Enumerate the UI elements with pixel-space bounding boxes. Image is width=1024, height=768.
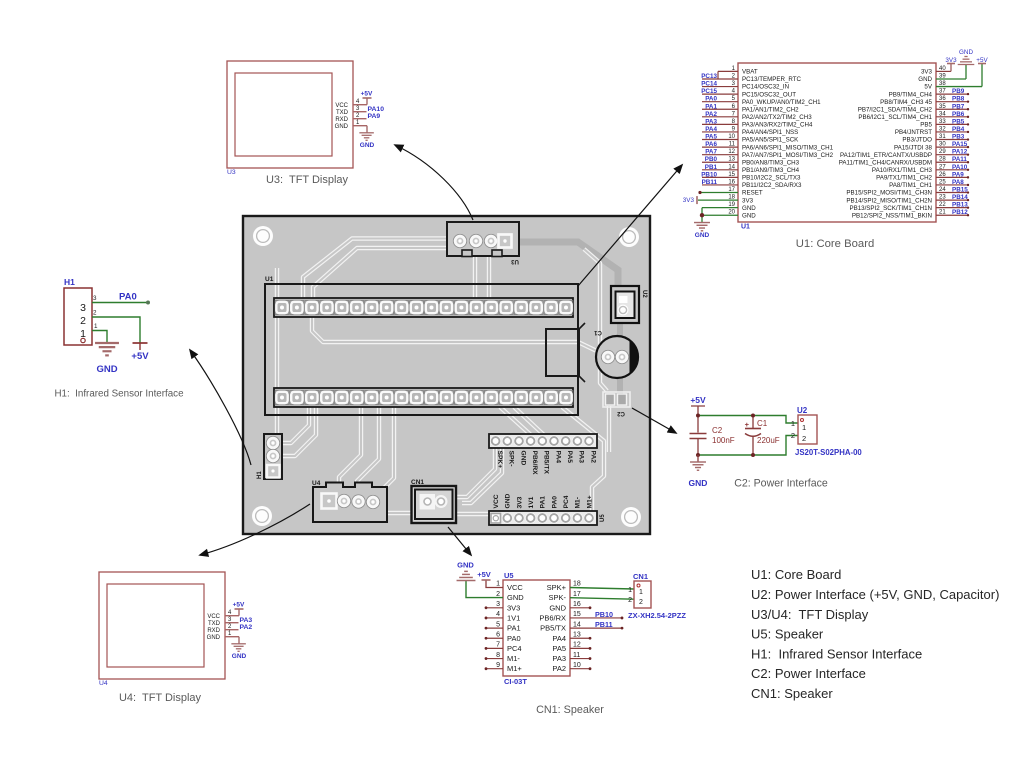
svg-text:PB9/TIM4_CH4: PB9/TIM4_CH4: [889, 91, 933, 98]
net label PA6: [702, 146, 738, 148]
C1 bracket on PCB: [546, 329, 579, 376]
svg-text:PA0: PA0: [705, 96, 717, 103]
svg-text:PA4: PA4: [552, 634, 566, 643]
ground symbol below U1 left: [694, 222, 710, 224]
svg-text:PB6/I2C1_SCL/TIM4_CH1: PB6/I2C1_SCL/TIM4_CH1: [858, 114, 932, 121]
svg-text:GND: GND: [549, 603, 566, 612]
svg-text:3V3: 3V3: [516, 496, 523, 508]
svg-text:GND: GND: [742, 205, 756, 212]
svg-text:PB11: PB11: [595, 620, 613, 629]
wire trace t18: [514, 407, 545, 436]
svg-text:RXD: RXD: [335, 117, 348, 123]
svg-text:5V: 5V: [924, 84, 932, 91]
arrow to U1 core board schematic: [578, 165, 682, 286]
wire trace t12: [374, 407, 394, 498]
wire trace t8: [584, 249, 607, 391]
svg-text:PB13/SPI2_SCK/TIM1_CH1N: PB13/SPI2_SCK/TIM1_CH1N: [849, 205, 932, 212]
svg-text:PA7: PA7: [705, 149, 717, 156]
net label PA4: [702, 131, 738, 133]
svg-text:7: 7: [496, 642, 500, 649]
svg-text:GND: GND: [335, 124, 349, 130]
U1 pin 1 VBAT wire: [718, 70, 738, 72]
U5 left pin stubs: [486, 607, 503, 609]
wire trace t2: [313, 248, 447, 298]
svg-text:PA2: PA2: [705, 111, 717, 118]
svg-text:PB10: PB10: [595, 610, 613, 619]
wire trace t16: [462, 448, 502, 503]
wire +5V rail: [698, 416, 798, 424]
wire trace t13: [375, 502, 412, 513]
svg-text:JS20T-S02PHA-00: JS20T-S02PHA-00: [795, 448, 862, 457]
svg-text:PA0: PA0: [507, 634, 521, 643]
svg-text:C2: Power Interface: C2: Power Interface: [751, 666, 866, 681]
svg-text:PB14/SPI2_MISO/TIM1_CH2N: PB14/SPI2_MISO/TIM1_CH2N: [846, 197, 932, 204]
svg-text:3: 3: [93, 295, 97, 302]
svg-text:14: 14: [573, 621, 581, 628]
svg-text:U1: U1: [741, 224, 750, 231]
svg-text:PB8: PB8: [952, 96, 965, 103]
wire trace t10: [339, 407, 361, 494]
net label PA5: [702, 139, 738, 141]
svg-text:U2: Power Interface (+5V, GND,: U2: Power Interface (+5V, GND, Capacitor…: [751, 587, 999, 602]
net label PB13: [936, 207, 968, 209]
svg-text:1: 1: [791, 419, 795, 428]
core board U1: [738, 63, 936, 222]
wire trace t17: [500, 407, 532, 436]
wire U5 pin2 to GND: [466, 581, 503, 598]
net label PC14: [702, 86, 738, 88]
svg-text:PB6: PB6: [952, 111, 965, 118]
net label PA12: [936, 154, 968, 156]
svg-text:C2: Power Interface: C2: Power Interface: [734, 478, 828, 490]
svg-text:U3: U3: [511, 258, 519, 264]
svg-text:PC4: PC4: [563, 495, 570, 508]
wire H1 pin2 to +5V: [92, 317, 140, 343]
wire H1 pin1 to ground: [92, 331, 107, 344]
svg-text:PA5/AN5/SPI1_SCK: PA5/AN5/SPI1_SCK: [742, 137, 799, 144]
wire trace t19: [562, 407, 604, 511]
svg-text:PA3: PA3: [240, 617, 253, 624]
svg-text:GND: GND: [360, 142, 375, 149]
junction dots: [696, 414, 700, 418]
net label PB3: [936, 139, 968, 141]
svg-text:U3: TFT Display: U3: TFT Display: [266, 174, 349, 186]
U1 GND pins 19-20 wires: [702, 207, 738, 209]
svg-text:U5: Speaker: U5: Speaker: [751, 627, 824, 642]
ground symbol C2: [697, 455, 699, 462]
svg-text:PA2/AN2/TX2/TIM2_CH3: PA2/AN2/TX2/TIM2_CH3: [742, 114, 812, 121]
svg-text:PB5: PB5: [952, 118, 965, 125]
wire trace t6: [312, 317, 548, 342]
svg-text:PA10: PA10: [368, 106, 385, 113]
U5 header row on PCB: [489, 511, 597, 525]
svg-text:100nF: 100nF: [712, 436, 735, 445]
svg-text:PB9: PB9: [952, 88, 965, 95]
svg-text:3V3: 3V3: [742, 197, 754, 204]
svg-text:M1-: M1-: [575, 497, 582, 509]
speaker chip U5: [503, 580, 570, 676]
svg-text:GND: GND: [519, 451, 526, 466]
svg-text:PA0: PA0: [551, 496, 558, 509]
svg-text:8: 8: [496, 652, 500, 659]
svg-text:U4: U4: [99, 680, 108, 687]
svg-text:PA5: PA5: [705, 134, 717, 141]
svg-text:1V1: 1V1: [528, 496, 535, 508]
svg-text:4: 4: [496, 611, 500, 618]
svg-text:17: 17: [573, 591, 581, 598]
svg-text:GND: GND: [457, 561, 474, 570]
svg-text:PA3: PA3: [578, 451, 585, 464]
svg-text:PB13: PB13: [952, 202, 968, 209]
svg-text:PB4: PB4: [952, 126, 965, 133]
PCB board: [243, 216, 650, 534]
svg-text:PC4: PC4: [507, 644, 522, 653]
net label PB4: [936, 131, 968, 133]
net label PA0: [702, 101, 738, 103]
svg-text:PA2: PA2: [589, 451, 596, 464]
svg-text:PA1: PA1: [507, 624, 521, 633]
svg-text:U1: Core Board: U1: Core Board: [751, 567, 841, 582]
U1 bottom pin header row: [274, 388, 573, 407]
svg-text:2: 2: [628, 597, 632, 604]
svg-text:PB7: PB7: [952, 103, 965, 110]
svg-text:GND: GND: [232, 653, 247, 660]
svg-text:12: 12: [573, 642, 581, 649]
svg-text:H1: H1: [64, 277, 75, 287]
svg-text:GND: GND: [742, 212, 756, 219]
svg-text:PA1/AN1/TIM2_CH2: PA1/AN1/TIM2_CH2: [742, 106, 799, 113]
svg-text:18: 18: [573, 581, 581, 588]
arrow to C2 power schematic: [632, 408, 676, 433]
wire trace t5: [275, 268, 279, 436]
connector U2 on PCB: [611, 286, 639, 323]
svg-text:PB5: PB5: [920, 122, 932, 129]
svg-text:PA0_WKUP/AN0/TIM2_CH1: PA0_WKUP/AN0/TIM2_CH1: [742, 99, 821, 106]
net label PA10: [936, 169, 968, 171]
net label PA2: [702, 116, 738, 118]
ground symbol H1: [95, 342, 119, 344]
speaker header row on PCB: [489, 434, 597, 448]
svg-text:VCC: VCC: [507, 583, 523, 592]
net label PB12: [936, 214, 968, 216]
PCB power trace (thick): [506, 242, 618, 288]
wire SPK+ to CN1: [570, 588, 634, 590]
+5V power symbol H1: [133, 342, 148, 344]
arrow to U4 display schematic: [200, 504, 310, 555]
net label PB15: [936, 192, 968, 194]
svg-text:PB1/AN9/TIM3_CH4: PB1/AN9/TIM3_CH4: [742, 167, 800, 174]
svg-text:U2: U2: [797, 406, 808, 415]
svg-text:3: 3: [80, 302, 86, 314]
svg-text:PA15/JTDI 38: PA15/JTDI 38: [894, 144, 933, 151]
net label PB10: [702, 176, 738, 178]
svg-text:PA2: PA2: [552, 664, 566, 673]
svg-text:RESET: RESET: [742, 190, 763, 197]
svg-text:CI-03T: CI-03T: [504, 677, 527, 686]
svg-text:+5V: +5V: [477, 570, 491, 579]
arrow to U3 display schematic: [395, 145, 473, 220]
svg-text:PA3/AN3/RX2/TIM2_CH4: PA3/AN3/RX2/TIM2_CH4: [742, 122, 813, 129]
+5V power for U4: [238, 609, 240, 616]
ground for U3: [366, 126, 368, 133]
wire trace t14: [456, 512, 489, 516]
net label PA8: [936, 184, 968, 186]
svg-text:GND: GND: [505, 493, 512, 508]
svg-text:PB7/I2C1_SDA/TIM4_CH2: PB7/I2C1_SDA/TIM4_CH2: [858, 106, 933, 113]
TFT display U3: [227, 61, 353, 168]
net label PB10 wire: [570, 617, 622, 619]
net label PA1: [702, 108, 738, 110]
svg-text:TXD: TXD: [336, 110, 349, 116]
net label PB11: [702, 184, 738, 186]
arrow to CN1 speaker schematic: [448, 527, 471, 555]
svg-text:PA4: PA4: [705, 126, 717, 133]
svg-text:PA8/TIM1_CH1: PA8/TIM1_CH1: [889, 182, 932, 189]
svg-text:5: 5: [496, 621, 500, 628]
svg-text:9: 9: [496, 662, 500, 669]
svg-text:CN1: Speaker: CN1: Speaker: [536, 704, 604, 716]
svg-text:2: 2: [791, 431, 795, 440]
svg-text:PA3: PA3: [552, 654, 566, 663]
svg-text:PA4: PA4: [554, 451, 561, 464]
ground symbol U5: [457, 580, 476, 582]
arrow to H1 schematic: [190, 350, 251, 465]
capacitor C2: [697, 416, 699, 433]
svg-text:U5: U5: [600, 514, 606, 522]
wire trace t4: [487, 241, 491, 298]
svg-text:VCC: VCC: [335, 103, 348, 109]
svg-text:H1: Infrared Sensor Interface: H1: Infrared Sensor Interface: [54, 389, 184, 400]
svg-text:PA5: PA5: [566, 451, 573, 464]
svg-text:GND: GND: [96, 364, 117, 375]
svg-text:PC14: PC14: [701, 81, 717, 88]
svg-text:2: 2: [496, 591, 500, 598]
svg-text:H1: Infrared Sensor Interface: H1: Infrared Sensor Interface: [751, 647, 922, 662]
connector U2 schematic: [798, 415, 817, 444]
svg-text:H1: H1: [257, 471, 263, 479]
net label PA9: [936, 176, 968, 178]
svg-text:PB14: PB14: [952, 194, 968, 201]
svg-text:+5V: +5V: [690, 395, 706, 405]
svg-text:CN1: Speaker: CN1: Speaker: [751, 686, 833, 701]
svg-text:GND: GND: [918, 76, 932, 83]
ground for U4: [238, 637, 240, 644]
svg-text:2: 2: [639, 599, 643, 606]
svg-text:PC13: PC13: [701, 73, 717, 80]
wire H1 pin3 to PA0: [92, 302, 148, 304]
svg-text:U4: TFT Display: U4: TFT Display: [119, 692, 202, 704]
wire U5 pin1 to +5V: [486, 580, 503, 588]
wire trace t11: [357, 407, 379, 495]
svg-text:PA12: PA12: [952, 149, 968, 156]
svg-text:U2: U2: [641, 290, 647, 298]
svg-text:PB0: PB0: [705, 156, 718, 163]
connector U3 on PCB: [447, 222, 519, 256]
wire GND rail: [698, 436, 798, 456]
svg-text:RXD: RXD: [207, 628, 220, 634]
svg-text:+5V: +5V: [131, 351, 149, 362]
wire trace t9: [607, 406, 611, 452]
TFT display U4: [99, 572, 225, 679]
svg-text:1: 1: [94, 323, 98, 330]
svg-text:U5: U5: [504, 571, 514, 580]
svg-text:PA10: PA10: [952, 164, 968, 171]
svg-text:PA11/TIM1_CH4/CANRX/USBDM: PA11/TIM1_CH4/CANRX/USBDM: [839, 159, 932, 166]
svg-text:PA0: PA0: [119, 292, 137, 303]
net label PB7: [936, 108, 968, 110]
svg-text:2: 2: [80, 315, 86, 327]
svg-text:PC14/OSC32_IN: PC14/OSC32_IN: [742, 84, 789, 91]
net label PC15: [702, 93, 738, 95]
svg-text:3: 3: [496, 601, 500, 608]
svg-text:11: 11: [573, 652, 580, 659]
svg-text:GND: GND: [689, 478, 708, 488]
wire trace t15: [457, 448, 495, 497]
net label PA11: [936, 161, 968, 163]
svg-text:PA11: PA11: [952, 156, 967, 163]
wire trace t7: [548, 342, 603, 354]
capacitor C1 on PCB: [596, 336, 638, 378]
svg-text:PB4/JNTRST: PB4/JNTRST: [895, 129, 932, 136]
svg-text:6: 6: [496, 631, 500, 638]
svg-text:PA3: PA3: [705, 118, 717, 125]
svg-text:PA6/AN6/SPI1_MISO/TIM3_CH1: PA6/AN6/SPI1_MISO/TIM3_CH1: [742, 144, 834, 151]
svg-text:U3: U3: [227, 169, 236, 176]
svg-text:+5V: +5V: [976, 57, 988, 64]
+5V power for U3: [366, 98, 368, 105]
svg-text:U1: U1: [265, 276, 274, 283]
svg-text:PC15/OSC32_OUT: PC15/OSC32_OUT: [742, 91, 796, 98]
capacitor C2 on PCB: [603, 392, 630, 407]
svg-text:VCC: VCC: [207, 614, 220, 620]
capacitor C1: [752, 416, 754, 428]
net label PB6: [936, 116, 968, 118]
U1 RESET pin wire: [700, 192, 738, 194]
svg-text:PA1: PA1: [540, 496, 547, 509]
svg-text:PB10: PB10: [701, 171, 717, 178]
svg-text:PA9/TX1/TIM1_CH2: PA9/TX1/TIM1_CH2: [876, 175, 932, 182]
svg-text:PA9: PA9: [368, 113, 381, 120]
svg-text:1V1: 1V1: [507, 613, 520, 622]
svg-text:PA6: PA6: [705, 141, 717, 148]
svg-text:GND: GND: [695, 232, 710, 239]
connector U4 on PCB: [313, 483, 387, 523]
svg-text:PA7/AN7/SPI1_MOSI/TIM3_CH2: PA7/AN7/SPI1_MOSI/TIM3_CH2: [742, 152, 834, 159]
svg-text:M1+: M1+: [586, 495, 593, 508]
svg-text:2: 2: [802, 434, 806, 443]
U1 +5V power top: [936, 86, 982, 88]
svg-text:+5V: +5V: [361, 91, 373, 98]
mounting holes: [253, 226, 273, 246]
U1 3V3 pin 18 wire and power bar: [698, 199, 738, 201]
svg-text:3V3: 3V3: [683, 197, 695, 204]
svg-text:PA9: PA9: [952, 171, 964, 178]
svg-text:C1: C1: [594, 329, 602, 335]
svg-text:VCC: VCC: [493, 494, 500, 508]
svg-text:3V3: 3V3: [945, 57, 957, 64]
svg-text:U3/U4: TFT Display: U3/U4: TFT Display: [751, 607, 869, 622]
svg-text:3V3: 3V3: [921, 69, 933, 76]
svg-text:M1+: M1+: [507, 664, 522, 673]
svg-text:1: 1: [628, 587, 632, 594]
svg-text:GND: GND: [207, 635, 221, 641]
svg-text:PB15/SPI2_MOSI/TIM1_CH3N: PB15/SPI2_MOSI/TIM1_CH3N: [846, 190, 932, 197]
svg-text:15: 15: [573, 611, 581, 618]
svg-text:SPK+: SPK+: [496, 451, 503, 469]
wire trace t21: [281, 407, 316, 456]
svg-text:PA12/TIM1_ETR/CANTX/USBDP: PA12/TIM1_ETR/CANTX/USBDP: [840, 152, 932, 159]
wire trace t1: [303, 239, 459, 299]
svg-text:PB11/I2C2_SDA/RX3: PB11/I2C2_SDA/RX3: [742, 182, 802, 189]
U3 pin wires: [353, 104, 367, 106]
svg-text:VBAT: VBAT: [742, 69, 758, 76]
U1 3V3 power top: [936, 70, 951, 72]
net label PB14: [936, 199, 968, 201]
svg-text:PC15: PC15: [701, 88, 717, 95]
net label PB0: [702, 161, 738, 163]
svg-text:1: 1: [802, 423, 806, 432]
svg-text:PB0/AN8/TIM3_CH3: PB0/AN8/TIM3_CH3: [742, 159, 800, 166]
svg-text:PA1: PA1: [705, 103, 717, 110]
svg-text:PB8/TIM4_CH3 45: PB8/TIM4_CH3 45: [880, 99, 932, 106]
svg-text:PB12/SPI2_NSS/TIM1_BKIN: PB12/SPI2_NSS/TIM1_BKIN: [852, 212, 932, 219]
svg-text:PB6/RX: PB6/RX: [539, 613, 566, 622]
connector CN1 on PCB: [412, 486, 457, 523]
svg-text:PA4/AN4/SPI1_NSS: PA4/AN4/SPI1_NSS: [742, 129, 798, 136]
U1 top pin header row: [274, 298, 573, 317]
svg-text:M1-: M1-: [507, 654, 520, 663]
svg-text:C2: C2: [617, 410, 625, 416]
U1 GND power top: [936, 78, 966, 80]
header H1 schematic: [64, 288, 92, 345]
header H1 on PCB: [264, 434, 282, 479]
svg-text:PB10/I2C2_SCL/TX3: PB10/I2C2_SCL/TX3: [742, 175, 801, 182]
net label PB5: [936, 123, 968, 125]
svg-text:PB5/TX: PB5/TX: [543, 451, 550, 475]
svg-text:PA5: PA5: [552, 644, 566, 653]
svg-text:PA8: PA8: [952, 179, 964, 186]
svg-text:PA15: PA15: [952, 141, 968, 148]
wire trace t20: [281, 407, 309, 443]
svg-text:PB3: PB3: [952, 134, 965, 141]
svg-text:PB6/RX: PB6/RX: [531, 451, 538, 476]
svg-text:SPK-: SPK-: [548, 593, 566, 602]
svg-text:220uF: 220uF: [757, 436, 780, 445]
svg-text:ZX-XH2.54-2PZZ: ZX-XH2.54-2PZZ: [628, 611, 686, 620]
wire trace t3: [473, 241, 477, 298]
net label PA15: [936, 146, 968, 148]
net label PA7: [702, 154, 738, 156]
svg-text:PB15: PB15: [952, 187, 968, 194]
net label PB11 wire: [570, 627, 622, 629]
net label PB1: [702, 169, 738, 171]
svg-text:PA2: PA2: [240, 624, 253, 631]
svg-text:C2: C2: [712, 426, 723, 435]
svg-text:CN1: CN1: [411, 479, 424, 486]
svg-text:CN1: CN1: [633, 572, 648, 581]
net label PB8: [936, 101, 968, 103]
svg-text:1: 1: [639, 589, 643, 596]
U4 pin wires: [225, 615, 239, 617]
svg-text:PA10/RX1/TIM1_CH3: PA10/RX1/TIM1_CH3: [872, 167, 933, 174]
svg-text:PB1: PB1: [705, 164, 718, 171]
svg-text:1: 1: [496, 581, 500, 588]
svg-text:3V3: 3V3: [507, 603, 520, 612]
U1 socket outline on PCB: [265, 284, 578, 415]
svg-text:+: +: [745, 420, 750, 429]
svg-text:+5V: +5V: [233, 602, 245, 609]
svg-text:GND: GND: [959, 49, 973, 56]
